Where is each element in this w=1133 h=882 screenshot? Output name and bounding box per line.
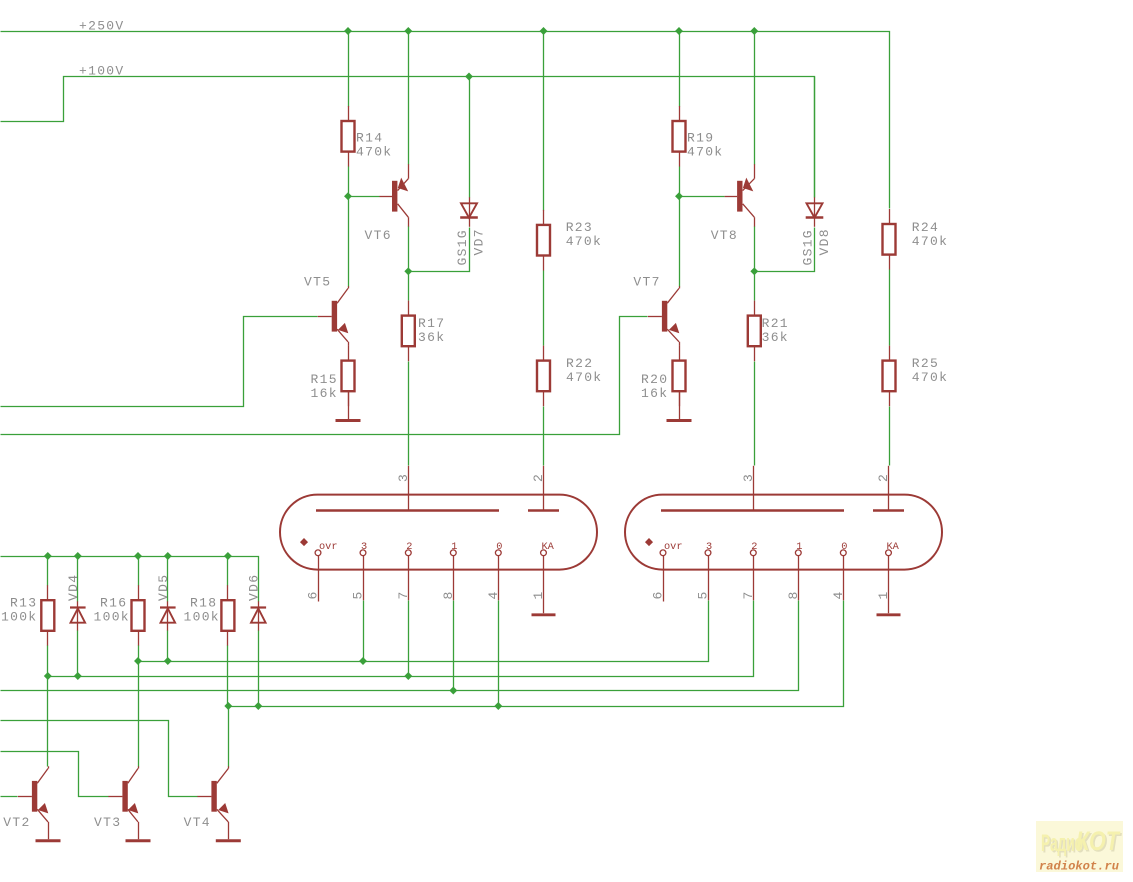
resistor R14 470k <box>342 106 393 167</box>
svg-text:R20: R20 <box>641 372 668 387</box>
resistor R19 470k <box>673 106 724 167</box>
transistor VT7 (NPN) <box>633 275 679 342</box>
wire bus to R18 <box>227 557 229 586</box>
svg-text:5: 5 <box>351 591 366 600</box>
svg-text:4: 4 <box>831 591 846 600</box>
tube V1 cathode 2 pin 7 <box>405 541 412 600</box>
svg-text:ovr: ovr <box>664 541 683 553</box>
resistor R21 36k <box>748 301 789 362</box>
junction bus4/R18 <box>224 702 232 710</box>
wire +250V to VT6 emitter <box>408 32 410 165</box>
svg-text:6: 6 <box>651 591 666 600</box>
transistor VT8 (PNP) <box>711 164 755 243</box>
tube V2 cathode 2 pin 7 <box>750 541 757 600</box>
svg-text:1: 1 <box>876 591 891 600</box>
resistor R13 100k <box>1 585 54 646</box>
junction node A1 (R14/VT5.C/VT6.B) <box>344 192 352 200</box>
tube V2 pin 2 <box>888 466 890 511</box>
junction +250V rail at x=679 <box>675 27 683 35</box>
svg-text:VT5: VT5 <box>304 275 331 290</box>
junction bus4/V1 pin4 <box>494 702 502 710</box>
svg-text:3: 3 <box>396 473 411 482</box>
svg-text:2: 2 <box>751 541 757 553</box>
svg-text:3: 3 <box>361 541 367 553</box>
wire VD7 to node B1 <box>409 228 470 272</box>
wire +250V to VT8 emitter <box>754 32 756 165</box>
svg-text:0: 0 <box>841 541 847 553</box>
svg-text:470k: 470k <box>566 370 602 385</box>
svg-text:R24: R24 <box>912 220 939 235</box>
diode VD8 <box>806 197 824 227</box>
wire R17 to tube V1 pin 3 <box>408 362 410 466</box>
wire R18 to bus4 <box>227 646 229 707</box>
svg-text:VT6: VT6 <box>365 228 392 243</box>
resistor R16 100k <box>94 585 145 646</box>
tube V2 cathode 0 pin 4 <box>840 541 847 600</box>
svg-text:R21: R21 <box>762 316 789 331</box>
svg-text:VD4: VD4 <box>66 574 81 601</box>
tube V2 cathode 1 pin 8 <box>795 541 802 600</box>
tube V1 cathode 0 pin 4 <box>495 541 502 600</box>
resistor R24 470k <box>883 209 949 270</box>
svg-text:0: 0 <box>496 541 502 553</box>
junction node A2 (R19/VT7.C/VT8.B) <box>675 192 683 200</box>
wire +250V rail <box>1 32 890 209</box>
wire R13 to bus2 <box>47 646 49 677</box>
terminal bar on V2 pin 1 (KA) <box>877 613 901 616</box>
svg-text:2: 2 <box>876 473 891 482</box>
wire +100V rail <box>1 77 815 198</box>
wire V1 pin7 to bus2 <box>408 601 410 677</box>
svg-text:R18: R18 <box>190 596 217 611</box>
wire cathode bus 4 (pin4) <box>229 601 844 707</box>
resistor R22 470k <box>537 346 602 407</box>
tube V1 cathode KA pin 1 <box>541 541 555 613</box>
junction anode bus at x=47.8 <box>44 552 52 560</box>
wire +250V to R24 <box>889 208 891 210</box>
diode VD5 <box>160 601 176 631</box>
wire bus1 to VT3 collector <box>138 662 140 767</box>
svg-text:R23: R23 <box>566 220 593 235</box>
wire anode supply bus <box>1 557 259 602</box>
wire +100V to VD7 <box>469 77 471 198</box>
svg-text:R14: R14 <box>356 131 383 146</box>
svg-text:7: 7 <box>741 591 756 600</box>
wire node A1 to VT6 base <box>349 196 380 198</box>
tube V2 pin 3 (anode) <box>753 466 755 511</box>
wire node B2 to R21 <box>754 272 756 301</box>
wire R20 to ground <box>679 391 681 419</box>
ground (VT4) <box>216 839 241 842</box>
ground (R20) <box>667 419 692 422</box>
nixie tube V1 body <box>280 495 597 570</box>
svg-text:470k: 470k <box>566 234 602 249</box>
svg-text:+250V: +250V <box>79 19 125 34</box>
wire R24 to R25 <box>889 270 891 346</box>
svg-text:1: 1 <box>451 541 457 553</box>
svg-text:8: 8 <box>441 591 456 600</box>
svg-text:КОТ: КОТ <box>1076 826 1121 856</box>
nixie tube V2 body <box>625 495 942 570</box>
svg-text:+100V: +100V <box>79 64 125 79</box>
diode VD7 <box>460 197 478 227</box>
svg-text:R15: R15 <box>311 372 338 387</box>
wire input to VT7 base <box>1 317 648 435</box>
svg-text:R16: R16 <box>100 596 127 611</box>
svg-text:radiokot.ru: radiokot.ru <box>1039 861 1119 874</box>
junction anode bus at x=77.8 <box>74 552 82 560</box>
svg-text:3: 3 <box>706 541 712 553</box>
svg-text:100k: 100k <box>1 610 37 625</box>
wire bus to VD5 <box>167 557 169 602</box>
junction +250V rail at x=754.3 <box>750 27 758 35</box>
junction +250V rail at x=348 <box>344 27 352 35</box>
junction anode bus at x=167.8 <box>164 552 172 560</box>
svg-text:R17: R17 <box>418 316 445 331</box>
wire +250V to R19 <box>679 32 681 107</box>
svg-text:VT8: VT8 <box>711 228 738 243</box>
terminal bar on V1 pin 1 (KA) <box>532 613 556 616</box>
wire node A2 to VT7 collector <box>679 197 681 287</box>
svg-text:3: 3 <box>741 473 756 482</box>
wire +250V to R23 <box>543 32 545 211</box>
svg-text:VT4: VT4 <box>184 815 211 830</box>
wire R14 to node A1 <box>348 167 350 197</box>
svg-text:VT3: VT3 <box>94 815 121 830</box>
svg-text:2: 2 <box>531 473 546 482</box>
wire VD8 to node B2 <box>755 228 815 272</box>
resistor R23 470k <box>537 210 602 271</box>
junction bus1/R16 <box>134 657 142 665</box>
junction anode bus at x=227.9 <box>224 552 232 560</box>
svg-text:6: 6 <box>306 591 321 600</box>
wire cathode bus 2 (pin7) <box>48 601 754 677</box>
tube V1 pin 2 <box>543 466 545 511</box>
wire node A1 to VT5 collector <box>348 197 350 287</box>
tube V1 cathode 3 pin 5 <box>360 541 367 600</box>
wire node A2 to VT8 base <box>680 196 725 198</box>
wire node B1 to R17 <box>408 272 410 301</box>
svg-text:2: 2 <box>406 541 412 553</box>
junction bus2/VD4 <box>74 672 82 680</box>
junction anode bus at x=138 <box>134 552 142 560</box>
svg-text:R25: R25 <box>912 356 939 371</box>
diode VD4 <box>70 601 86 631</box>
wire bus4 to VT4 collector <box>228 707 230 767</box>
wire R25 to tube V2 pin 2 <box>889 407 891 466</box>
transistor VT6 (PNP) <box>365 164 409 243</box>
svg-text:470k: 470k <box>912 370 948 385</box>
junction bus2/V1 pin7 <box>404 672 412 680</box>
watermark radiokot.ru logo <box>1036 821 1123 874</box>
svg-text:36k: 36k <box>418 330 445 345</box>
svg-text:16k: 16k <box>641 386 668 401</box>
ground (VT3) <box>126 839 151 842</box>
tube V2 cathode KA pin 1 <box>886 541 900 613</box>
diode VD6 <box>251 601 267 631</box>
svg-text:470k: 470k <box>356 145 392 160</box>
svg-text:100k: 100k <box>94 610 130 625</box>
wire R23 to R22 <box>543 271 545 346</box>
wire VT7 emitter to R20 <box>679 342 681 346</box>
resistor R15 16k <box>311 346 355 407</box>
svg-text:7: 7 <box>396 591 411 600</box>
tube V1 cathode ovr pin 6 <box>315 541 337 602</box>
svg-text:16k: 16k <box>311 386 338 401</box>
wire VT2 emitter to ground <box>48 822 50 839</box>
wire input to VT3 base <box>1 752 109 797</box>
wire +100V to VD8 <box>814 77 816 198</box>
wire R15 to ground <box>348 391 350 419</box>
svg-text:VT7: VT7 <box>633 275 660 290</box>
wire input to VT5 base <box>1 317 318 407</box>
wire bus2 to VT2 collector <box>47 677 49 767</box>
ground (R15) <box>336 419 361 422</box>
tube V2 cathode 3 pin 5 <box>705 541 712 600</box>
svg-text:36k: 36k <box>762 330 789 345</box>
svg-text:1: 1 <box>796 541 802 553</box>
wire VT4 emitter to ground <box>228 822 230 839</box>
svg-text:R13: R13 <box>10 596 37 611</box>
wire R19 to node A2 <box>679 167 681 197</box>
resistor R17 36k <box>402 301 446 362</box>
svg-text:KA: KA <box>542 541 555 553</box>
junction +250V rail at x=408.3 <box>404 27 412 35</box>
svg-text:1: 1 <box>531 591 546 600</box>
wire VD4 to bus2 <box>77 631 79 677</box>
wire input to VT2 base <box>1 796 18 798</box>
wire VT6 collector to node B1 <box>408 227 410 272</box>
transistor VT4 (NPN) <box>184 766 229 830</box>
resistor R18 100k <box>184 585 235 646</box>
junction bus3/V1 pin8 <box>449 687 457 695</box>
junction node B2 (VT8.C/VD8/R21) <box>750 267 758 275</box>
wire VT3 emitter to ground <box>138 822 140 839</box>
wire +250V to R14 <box>348 32 350 107</box>
svg-text:KA: KA <box>887 541 900 553</box>
svg-text:GS1G: GS1G <box>801 229 816 265</box>
junction bus1/V1 pin5 <box>359 657 367 665</box>
junction +250V rail at x=543.5 <box>540 27 548 35</box>
junction bus1/VD5 <box>164 657 172 665</box>
svg-text:470k: 470k <box>687 145 723 160</box>
wire V1 pin8 to bus3 <box>453 601 455 691</box>
svg-text:VT2: VT2 <box>3 815 30 830</box>
svg-text:100k: 100k <box>184 610 220 625</box>
svg-text:8: 8 <box>786 591 801 600</box>
wire V1 pin4 to bus4 <box>498 601 500 707</box>
tube V1 pin 3 (anode) <box>408 466 410 511</box>
junction bus2/R13 <box>44 672 52 680</box>
wire bus to R13 <box>47 557 49 586</box>
wire R22 to tube V1 pin 2 <box>543 407 545 466</box>
svg-text:VD6: VD6 <box>247 574 262 601</box>
svg-text:R19: R19 <box>687 131 714 146</box>
svg-text:VD5: VD5 <box>156 574 171 601</box>
svg-text:R22: R22 <box>566 356 593 371</box>
transistor VT2 (NPN) <box>3 766 48 830</box>
wire cathode bus 3 (pin8) <box>1 601 799 691</box>
resistor R25 470k <box>883 346 949 407</box>
transistor VT5 (NPN) <box>304 275 349 342</box>
wire cathode bus 1 (pin5) <box>139 601 709 662</box>
wire VT5 emitter to R15 <box>348 342 350 346</box>
svg-text:4: 4 <box>486 591 501 600</box>
svg-text:5: 5 <box>696 591 711 600</box>
wire VD5 to bus1 <box>167 631 169 662</box>
junction bus4/VD6 <box>254 702 262 710</box>
transistor VT3 (NPN) <box>94 766 139 830</box>
svg-text:VD7: VD7 <box>472 228 487 255</box>
svg-text:ovr: ovr <box>319 541 338 553</box>
tube V1 cathode 1 pin 8 <box>450 541 457 600</box>
junction +100V rail / VD7 <box>465 73 473 81</box>
wire R21 to tube V2 pin 3 <box>754 362 756 466</box>
tube V2 cathode ovr pin 6 <box>660 541 682 602</box>
svg-text:GS1G: GS1G <box>455 229 470 265</box>
svg-text:470k: 470k <box>912 234 948 249</box>
wire R16 to bus1 <box>138 646 140 662</box>
resistor R20 16k <box>641 346 686 407</box>
junction node B1 (VT6.C/VD7/R17) <box>404 267 412 275</box>
wire V1 pin5 to bus1 <box>363 601 365 662</box>
wire input to VT4 base <box>1 721 198 797</box>
wire VD6 to bus4 <box>258 631 260 707</box>
ground (VT2) <box>36 839 61 842</box>
wire bus to VD4 <box>77 557 79 602</box>
wire bus to R16 <box>138 557 140 586</box>
wire VT8 collector to node B2 <box>754 227 756 272</box>
svg-text:VD8: VD8 <box>817 228 832 255</box>
